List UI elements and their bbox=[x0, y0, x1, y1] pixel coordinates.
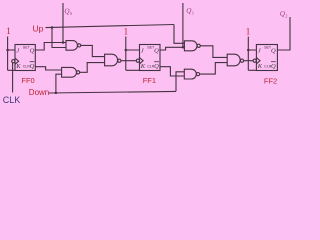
nand gate G5 (Down AND Q1bar) bbox=[184, 69, 196, 79]
nand gate G3 (combiner to FF1 clock) bbox=[105, 54, 118, 66]
clock triangle FF0 bbox=[15, 58, 19, 64]
svg-text:Up: Up bbox=[33, 24, 44, 34]
wire Q0 riser to top bbox=[62, 3, 64, 43]
wire Q1bar from FF1 to gate 5 bbox=[160, 67, 184, 76]
svg-text:FF1: FF1 bbox=[143, 76, 156, 85]
svg-text:Q: Q bbox=[154, 47, 159, 54]
wire Q2 from FF2 to riser bbox=[277, 17, 290, 50]
junction node on feed FF0 bbox=[6, 49, 9, 52]
nand gate G1 (Up AND Q0) bbox=[66, 41, 77, 51]
wire G5 output to G6 bbox=[200, 63, 228, 75]
wire G4 output to G6 bbox=[200, 46, 227, 58]
wire G1 output to G3 bbox=[81, 45, 105, 56]
wire Up drop to gate 1 bbox=[52, 28, 66, 48]
junction node Q0 riser bbox=[62, 41, 65, 44]
svg-text:Q: Q bbox=[271, 47, 276, 54]
junction node feed FF1 bbox=[125, 49, 128, 52]
node 1 feed line FF1 bbox=[126, 37, 140, 71]
clock triangle FF1 bbox=[140, 58, 144, 64]
nand gate G6 (combiner to FF2 clock) bbox=[227, 54, 240, 66]
wire G3 output to FF1 clock bbox=[121, 60, 136, 62]
nand gate G2 (Down AND Q0bar) bbox=[62, 67, 77, 77]
clock bubble FF0 bbox=[12, 60, 15, 63]
flip-flop FF1 box bbox=[140, 45, 161, 71]
svg-text:1: 1 bbox=[124, 26, 129, 36]
svg-text:Q: Q bbox=[30, 63, 35, 70]
svg-text:K: K bbox=[257, 63, 263, 70]
svg-text:CLK: CLK bbox=[3, 95, 21, 105]
flip-flop FF2 box bbox=[256, 45, 277, 71]
FF1 pin labels bbox=[140, 46, 159, 70]
svg-text:Q: Q bbox=[30, 47, 35, 54]
wire Down line bbox=[49, 91, 176, 93]
nand gate G4 (Up AND Q1) bbox=[184, 41, 197, 51]
svg-text:FF0: FF0 bbox=[21, 76, 34, 85]
junction node feed FF2 bbox=[247, 49, 250, 52]
flip-flop FF0 box bbox=[15, 45, 35, 71]
svg-text:FF2: FF2 bbox=[264, 76, 277, 85]
clock triangle FF2 bbox=[256, 58, 260, 64]
svg-text:Q: Q bbox=[271, 63, 276, 70]
wire Up drop to gate 4 bbox=[174, 25, 184, 44]
svg-text:Down: Down bbox=[29, 88, 49, 97]
junction node Down line bbox=[55, 92, 58, 95]
node 1 feed line FF2 bbox=[248, 37, 256, 71]
node 1 (constant HIGH) feed line FF0 bbox=[8, 37, 15, 71]
svg-text:1: 1 bbox=[6, 26, 11, 36]
wire G2 output to G3 bbox=[80, 63, 105, 73]
wire Down riser to gate 2 bbox=[56, 74, 62, 93]
junction node Up line bbox=[51, 26, 54, 29]
FF0 pin labels bbox=[15, 46, 34, 70]
clock bubble FF1 bbox=[136, 59, 139, 62]
wire Down rise to gate 5 bbox=[176, 72, 184, 92]
clock bubble FF2 bbox=[253, 59, 256, 62]
svg-text:Q: Q bbox=[154, 63, 159, 70]
wire Up line bbox=[46, 25, 175, 28]
wire Q0bar from FF0 to gate 2 bbox=[35, 67, 61, 70]
svg-text:1: 1 bbox=[246, 26, 251, 36]
FF2 pin labels bbox=[257, 46, 276, 70]
svg-text:K: K bbox=[15, 63, 21, 70]
junction node Q1 riser bbox=[182, 46, 185, 49]
wire CLK vertical bbox=[12, 63, 14, 93]
wire G6 output to FF2 clock bbox=[244, 60, 254, 62]
wire Q1 from FF1 to gate 4 bbox=[160, 47, 184, 50]
wire Q0 from FF0 to gate bbox=[35, 43, 66, 51]
wire Q1 riser to top bbox=[182, 3, 184, 47]
svg-text:K: K bbox=[140, 63, 146, 70]
